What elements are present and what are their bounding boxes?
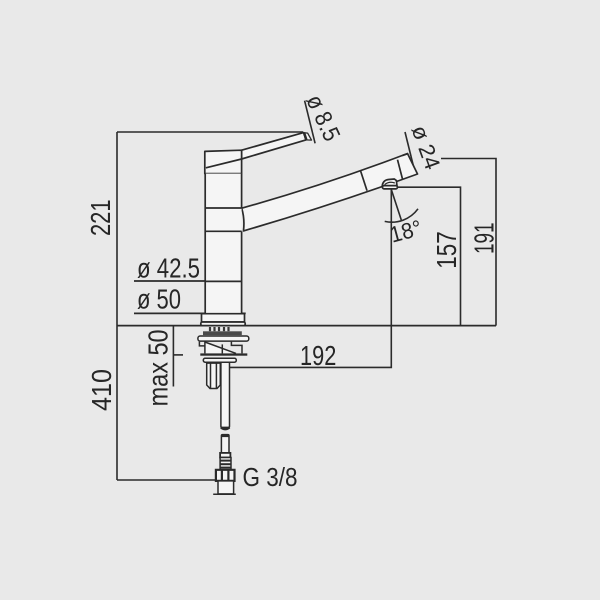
max50 dimension line <box>172 326 174 387</box>
dia 50 leader line <box>134 312 246 314</box>
spout mid seam <box>361 171 367 191</box>
handle lever <box>242 133 306 159</box>
clamp plate thick <box>200 353 247 355</box>
tie rod stub <box>221 344 223 353</box>
hex nut facets <box>221 470 223 481</box>
top cap of body <box>205 150 242 173</box>
dia 8.5 extension line <box>305 101 316 144</box>
svg-text:191: 191 <box>468 223 499 255</box>
dia 42.5 leader line <box>134 280 241 282</box>
spout end lip tick <box>402 154 407 156</box>
base ring <box>202 314 245 322</box>
lever tip cap <box>304 133 312 141</box>
191 dimension line <box>441 159 496 326</box>
connector skirt <box>218 481 234 494</box>
svg-text:ø 50: ø 50 <box>137 284 181 315</box>
bottom tick 410 <box>117 479 216 481</box>
mounting bracket right part <box>231 342 242 354</box>
hose break cap <box>221 427 230 429</box>
dimension line vertical left (221/410) <box>116 132 118 480</box>
157 dimension line <box>397 187 461 325</box>
192 dimension line <box>230 190 392 368</box>
G3/8 hex nut <box>216 470 235 481</box>
18 degree slanted jet line <box>391 190 401 221</box>
aerator inner screen line <box>385 182 395 184</box>
lever tip cap inner edge <box>304 133 306 140</box>
body joint line upper <box>205 207 241 209</box>
deck line <box>117 325 496 327</box>
lever bottom edge across cap <box>206 159 242 168</box>
hose lower segment top band <box>221 435 229 437</box>
body joint line lower <box>205 230 241 232</box>
max50 bottom tick <box>173 354 183 356</box>
svg-text:410: 410 <box>86 369 117 411</box>
horseshoe washer <box>198 336 249 341</box>
aerator face <box>383 186 398 189</box>
top tick line at faucet top <box>117 131 303 133</box>
hose collar <box>220 453 230 458</box>
washer under bracket <box>203 358 236 362</box>
dia 24 extension line <box>405 132 416 175</box>
body joint line at 281 <box>205 280 241 282</box>
fixing nut <box>207 363 221 388</box>
body right edge upper <box>241 174 243 209</box>
svg-text:ø 42.5: ø 42.5 <box>137 252 200 283</box>
svg-text:G 3/8: G 3/8 <box>243 462 298 492</box>
mounting bracket left hook <box>199 342 205 346</box>
spout end seam <box>398 160 403 179</box>
svg-text:221: 221 <box>85 200 116 237</box>
svg-text:max 50: max 50 <box>143 329 174 406</box>
connector baseline <box>213 493 236 495</box>
body right edge lower <box>241 231 243 313</box>
nut facet lines <box>210 363 212 388</box>
threaded shank hatch below deck <box>210 327 229 331</box>
thread dark band <box>203 331 242 335</box>
supply hose upper segment <box>221 362 230 427</box>
mounting bracket wedge <box>205 342 236 353</box>
svg-text:157: 157 <box>431 231 462 268</box>
18 degree arc <box>385 209 418 222</box>
ribbed nipple <box>220 458 231 470</box>
aerator dome <box>382 179 397 187</box>
supply hose lower segment <box>221 435 229 453</box>
body left edge <box>204 174 206 314</box>
spout tube <box>242 154 418 231</box>
flange lip <box>201 322 245 326</box>
svg-text:192: 192 <box>300 340 336 371</box>
faucet body column fill <box>205 174 241 314</box>
